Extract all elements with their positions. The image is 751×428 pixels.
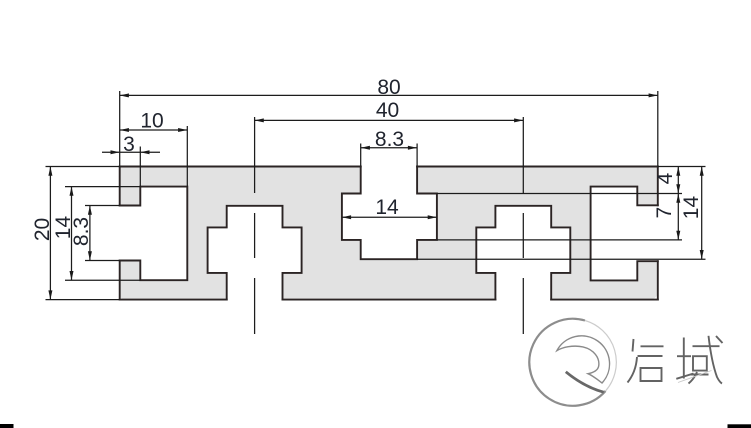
dim 10 right extension: [186, 126, 188, 187]
dim 8.3 top line: [361, 147, 417, 149]
left dim 14 line: [71, 187, 73, 281]
arrows left 8.3: [88, 206, 92, 261]
left dim 8.3 line: [89, 206, 91, 261]
logo character qi: [628, 339, 664, 383]
logo character yu: [676, 336, 722, 384]
logo circle dark arc: [529, 319, 605, 406]
dim 3 right extension: [139, 147, 141, 187]
svg-text:3: 3: [123, 133, 135, 156]
svg-text:8.3: 8.3: [375, 128, 404, 151]
dim 14 slot2 line: [342, 216, 437, 218]
arrows 14 slot2: [342, 215, 437, 219]
arrows left 20: [48, 167, 52, 300]
profile body (20x80 extrusion cross-section, gray fill with slot holes): [120, 167, 658, 300]
logo Q crescent: [557, 336, 610, 383]
arrows 3 (outside): [111, 150, 150, 154]
arrows right 4: [676, 167, 680, 194]
right end slot outline: [591, 187, 658, 281]
centerline slot1: [254, 117, 256, 334]
logo Q tail slash: [566, 372, 604, 392]
bottom slot 1 outline: [208, 206, 302, 300]
dim 40 line: [255, 119, 524, 121]
arrows right 7: [676, 194, 680, 240]
left edge: [119, 167, 121, 300]
left dim 20 line: [49, 167, 51, 300]
svg-text:7: 7: [653, 207, 676, 219]
svg-text:20: 20: [31, 218, 54, 241]
right dim 14 line: [701, 167, 703, 260]
arrows left 14: [70, 187, 74, 281]
dim 80 line: [120, 94, 658, 96]
dim 10 line: [120, 129, 188, 131]
arrows 8.3 top: [361, 146, 417, 150]
top edge: [120, 166, 658, 168]
right extensions: [417, 167, 705, 260]
top slot 2 outline: [342, 167, 437, 260]
svg-text:40: 40: [376, 99, 399, 122]
bottom slot 3 outline: [476, 206, 570, 300]
dim 8.3 top extensions: [361, 144, 417, 167]
right dim 7 line: [677, 194, 679, 240]
svg-text:14: 14: [375, 196, 399, 219]
arrows 80: [120, 93, 658, 97]
logo circle light arc: [585, 321, 616, 392]
bottom edge: [120, 299, 658, 301]
left extensions: [46, 167, 141, 300]
corner mark bottom-right: [728, 424, 751, 428]
svg-text:14: 14: [680, 196, 703, 220]
centerline slot3: [522, 117, 524, 334]
dim 80 extension lines: [120, 91, 658, 167]
dim 3 line with outside tails: [102, 151, 160, 153]
svg-text:4: 4: [654, 172, 677, 184]
arrows right 14: [700, 167, 704, 260]
arrows 40: [255, 118, 524, 122]
svg-text:80: 80: [377, 76, 400, 99]
svg-text:8.3: 8.3: [70, 217, 93, 246]
left end slot outline: [120, 187, 188, 281]
arrows 10: [120, 128, 188, 132]
corner mark bottom-left: [0, 424, 14, 428]
svg-text:10: 10: [140, 110, 163, 133]
right dim 4 line: [677, 167, 679, 194]
right edge: [657, 167, 659, 300]
